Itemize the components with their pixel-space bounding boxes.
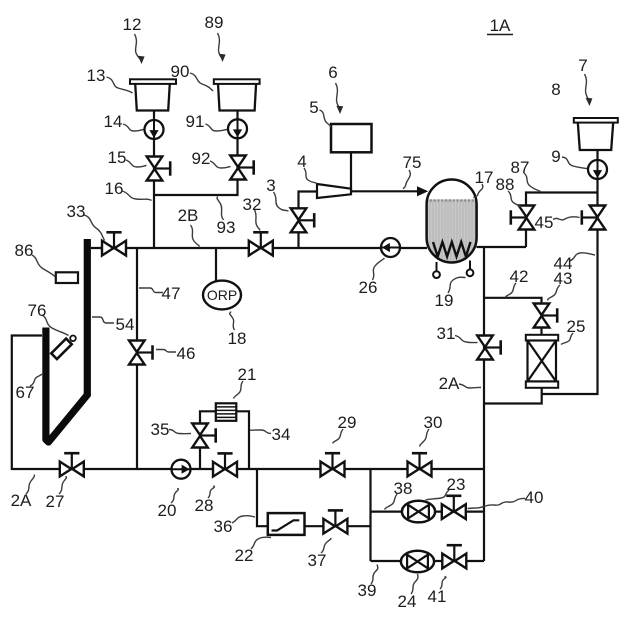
pump 38 (circle-X)	[402, 501, 435, 523]
svg-text:32: 32	[243, 195, 262, 214]
leader 34	[250, 430, 271, 434]
leader 13	[107, 77, 133, 93]
leader 7	[585, 74, 590, 102]
box 5 (control unit)	[331, 124, 372, 152]
svg-text:38: 38	[394, 479, 413, 498]
svg-text:42: 42	[510, 267, 529, 286]
leader 23	[426, 490, 450, 500]
pump 9	[588, 160, 607, 179]
svg-text:6: 6	[328, 63, 337, 82]
svg-text:35: 35	[151, 420, 170, 439]
arrow into vessel 17	[417, 186, 428, 196]
ORP meter 18	[203, 281, 241, 310]
leader 14	[123, 124, 144, 131]
svg-text:23: 23	[447, 475, 466, 494]
leader 19	[448, 277, 466, 293]
leader 37	[321, 538, 331, 553]
svg-text:24: 24	[398, 592, 417, 611]
leader 30	[420, 429, 430, 447]
valve 41	[442, 545, 466, 568]
leader 24	[411, 574, 418, 594]
valve 46	[129, 341, 153, 365]
wire valve 3 branch up to funnel inlet	[299, 192, 318, 249]
leader 29	[333, 429, 343, 444]
valve 15	[147, 157, 171, 181]
valve 23	[442, 496, 466, 519]
leader arrowheads	[138, 54, 592, 114]
column 25 top cap	[526, 335, 558, 341]
svg-text:27: 27	[46, 492, 65, 511]
valve 31	[477, 336, 501, 360]
wire header 2B from tub wall to vessel 17	[91, 247, 427, 249]
svg-text:46: 46	[177, 344, 196, 363]
svg-text:89: 89	[205, 13, 224, 32]
valve 29	[321, 453, 345, 476]
valve 92	[230, 156, 254, 180]
vessel 17 shell	[427, 179, 477, 262]
leader 87	[524, 173, 541, 192]
leader 45	[553, 217, 580, 220]
valve 27	[60, 453, 84, 476]
leader 6	[336, 83, 340, 110]
leader 47	[139, 288, 163, 293]
leader 32	[255, 210, 260, 231]
leader 93	[217, 197, 223, 221]
leader 3	[274, 192, 289, 211]
arrow 7	[586, 98, 593, 106]
leader 42	[506, 283, 517, 298]
svg-text:90: 90	[171, 62, 190, 81]
svg-text:40: 40	[525, 488, 544, 507]
svg-text:30: 30	[424, 413, 443, 432]
wire 36 drop to heater 22	[257, 469, 268, 526]
svg-text:12: 12	[123, 15, 142, 34]
leader 92	[210, 161, 231, 168]
tank 8 body	[578, 122, 613, 150]
valve 32	[249, 232, 273, 255]
leader 26	[373, 258, 385, 280]
svg-text:86: 86	[15, 241, 34, 260]
column 25 bottom cap	[526, 381, 558, 387]
valve 45	[511, 206, 535, 230]
svg-text:34: 34	[272, 425, 291, 444]
wire heater 22 to valve 37 to loop vertical	[305, 525, 371, 527]
svg-text:4: 4	[297, 152, 306, 171]
svg-text:93: 93	[217, 218, 236, 237]
wire column 25 bottom to 2A line	[484, 386, 542, 404]
valve 43	[534, 304, 558, 328]
leader 12	[135, 34, 141, 60]
leader 43	[548, 285, 561, 301]
sensor 86	[56, 272, 78, 283]
leader 15	[126, 160, 147, 167]
valve 44	[582, 206, 606, 230]
heater box 22	[268, 513, 305, 535]
pump 14	[145, 120, 164, 139]
leader 2B	[191, 225, 200, 247]
vessel 17 liquid fill	[426, 200, 478, 264]
wire feed line from tank 90 down and left to feed A	[154, 110, 238, 195]
svg-text:8: 8	[551, 80, 560, 99]
leader 75	[403, 170, 410, 189]
tank 90 lip	[214, 79, 260, 84]
pump 24 (circle-X)	[401, 551, 434, 573]
svg-text:47: 47	[162, 284, 181, 303]
svg-text:2A: 2A	[439, 374, 460, 393]
arrow 6	[336, 106, 343, 114]
tub 67 thick V shape	[46, 328, 88, 443]
svg-text:28: 28	[195, 496, 214, 515]
svg-text:75: 75	[403, 153, 422, 172]
valve 30	[408, 453, 432, 476]
wire 2A vertical line	[483, 247, 485, 561]
leader 18	[230, 312, 235, 331]
leader 4	[304, 168, 316, 183]
svg-text:5: 5	[309, 98, 318, 117]
leader 39	[371, 565, 378, 585]
pump 26	[381, 238, 400, 257]
wire valve 45 branch	[526, 193, 598, 248]
svg-text:88: 88	[496, 175, 515, 194]
svg-text:33: 33	[67, 202, 86, 221]
svg-text:36: 36	[214, 517, 233, 536]
leader 41	[440, 577, 446, 590]
funnel 4 (eductor)	[317, 184, 351, 198]
svg-text:39: 39	[358, 581, 377, 600]
svg-text:26: 26	[359, 278, 378, 297]
valve 3	[291, 208, 315, 232]
svg-text:29: 29	[338, 413, 357, 432]
leader 90	[190, 73, 213, 91]
valve 33	[102, 232, 126, 255]
svg-text:76: 76	[28, 301, 47, 320]
wire 34 bypass right side	[236, 411, 249, 469]
svg-text:13: 13	[87, 66, 106, 85]
valve 28	[213, 453, 237, 476]
leader 28	[208, 486, 214, 499]
leader 89	[218, 33, 223, 58]
svg-text:20: 20	[158, 501, 177, 520]
leader 2A left	[26, 475, 35, 495]
wire box 5 stem	[350, 152, 352, 191]
leader 36	[232, 516, 255, 523]
svg-text:21: 21	[238, 365, 257, 384]
wire ORP drop	[215, 248, 217, 282]
svg-text:43: 43	[554, 269, 573, 288]
leader 88	[508, 191, 521, 207]
leader 27	[59, 476, 67, 494]
svg-text:9: 9	[551, 147, 560, 166]
leader 67	[30, 374, 42, 386]
tank 90 body	[218, 84, 256, 111]
svg-text:7: 7	[578, 56, 587, 75]
leader 44	[570, 253, 595, 261]
svg-text:31: 31	[437, 324, 456, 343]
wire 44 right column from tank 8 down and left	[542, 150, 598, 394]
tank 8 lip	[574, 118, 618, 123]
column 25 body with X	[528, 341, 557, 382]
valve 37	[323, 510, 347, 533]
wire bottom branch 24/41	[371, 560, 485, 562]
svg-text:16: 16	[105, 179, 124, 198]
arrow 89	[219, 54, 226, 62]
leader 35	[169, 430, 191, 434]
wire vessel 17 outlet right	[477, 246, 527, 248]
wire top branch 38/23	[371, 511, 485, 513]
leader 20	[171, 488, 178, 503]
svg-text:22: 22	[235, 546, 254, 565]
svg-text:41: 41	[428, 587, 447, 606]
leader 91	[206, 124, 228, 131]
leader 40	[468, 498, 526, 508]
leader 31	[455, 336, 478, 343]
leader 21	[234, 381, 244, 399]
svg-text:45: 45	[535, 213, 554, 232]
leader 2A right	[459, 384, 481, 388]
svg-text:15: 15	[108, 148, 127, 167]
leader 25	[561, 333, 573, 345]
pump 20	[172, 460, 191, 479]
svg-text:2A: 2A	[11, 491, 32, 510]
nozzle 76 tip circle	[70, 336, 76, 342]
tank 13 body	[135, 84, 170, 111]
svg-text:ORP: ORP	[207, 287, 237, 303]
svg-text:17: 17	[475, 168, 494, 187]
wire 67 left loop and bottom rail 2A	[12, 336, 484, 470]
leader 46	[156, 350, 176, 353]
leader 16	[122, 191, 152, 201]
leader 33	[84, 215, 105, 241]
wire 39 loop vertical	[369, 469, 371, 561]
wire 47 line with valve 46	[136, 248, 138, 469]
svg-text:2B: 2B	[178, 206, 199, 225]
wire 75 funnel outlet to vessel	[351, 190, 419, 192]
leader 38	[385, 494, 398, 510]
wire feed line from tank 13 down to header	[153, 110, 155, 248]
pump 91	[228, 119, 247, 138]
valve 35	[192, 424, 216, 448]
leader 76	[42, 315, 69, 336]
leader 86	[32, 255, 55, 277]
svg-text:54: 54	[116, 315, 135, 334]
figure label 1A	[490, 16, 511, 35]
vessel 17 electrode stubs 19	[436, 262, 438, 271]
tank 13 lip	[130, 79, 176, 84]
leader 22	[251, 537, 271, 549]
svg-text:91: 91	[186, 112, 205, 131]
svg-text:37: 37	[308, 551, 327, 570]
leader 54	[92, 317, 114, 323]
nozzle 76 slanted body	[51, 339, 72, 360]
svg-text:14: 14	[104, 112, 123, 131]
leader 17	[474, 184, 483, 198]
svg-text:25: 25	[567, 317, 586, 336]
leader 5	[320, 110, 331, 128]
svg-text:1A: 1A	[490, 16, 511, 35]
arrow 12	[138, 56, 145, 64]
vessel 17 heating coil 19	[433, 242, 471, 257]
vessel 17 outline	[427, 179, 477, 262]
svg-text:18: 18	[228, 329, 247, 348]
svg-text:92: 92	[192, 149, 211, 168]
svg-text:3: 3	[266, 176, 275, 195]
leaders	[26, 33, 595, 594]
svg-text:67: 67	[16, 383, 35, 402]
leader 9	[562, 157, 587, 169]
svg-text:19: 19	[435, 291, 454, 310]
filter box 21	[216, 403, 237, 421]
tub wall thick bar 54	[84, 239, 91, 397]
wire 21/35 bypass left side	[200, 411, 216, 469]
wire 42 branch to valve 43	[484, 298, 542, 335]
